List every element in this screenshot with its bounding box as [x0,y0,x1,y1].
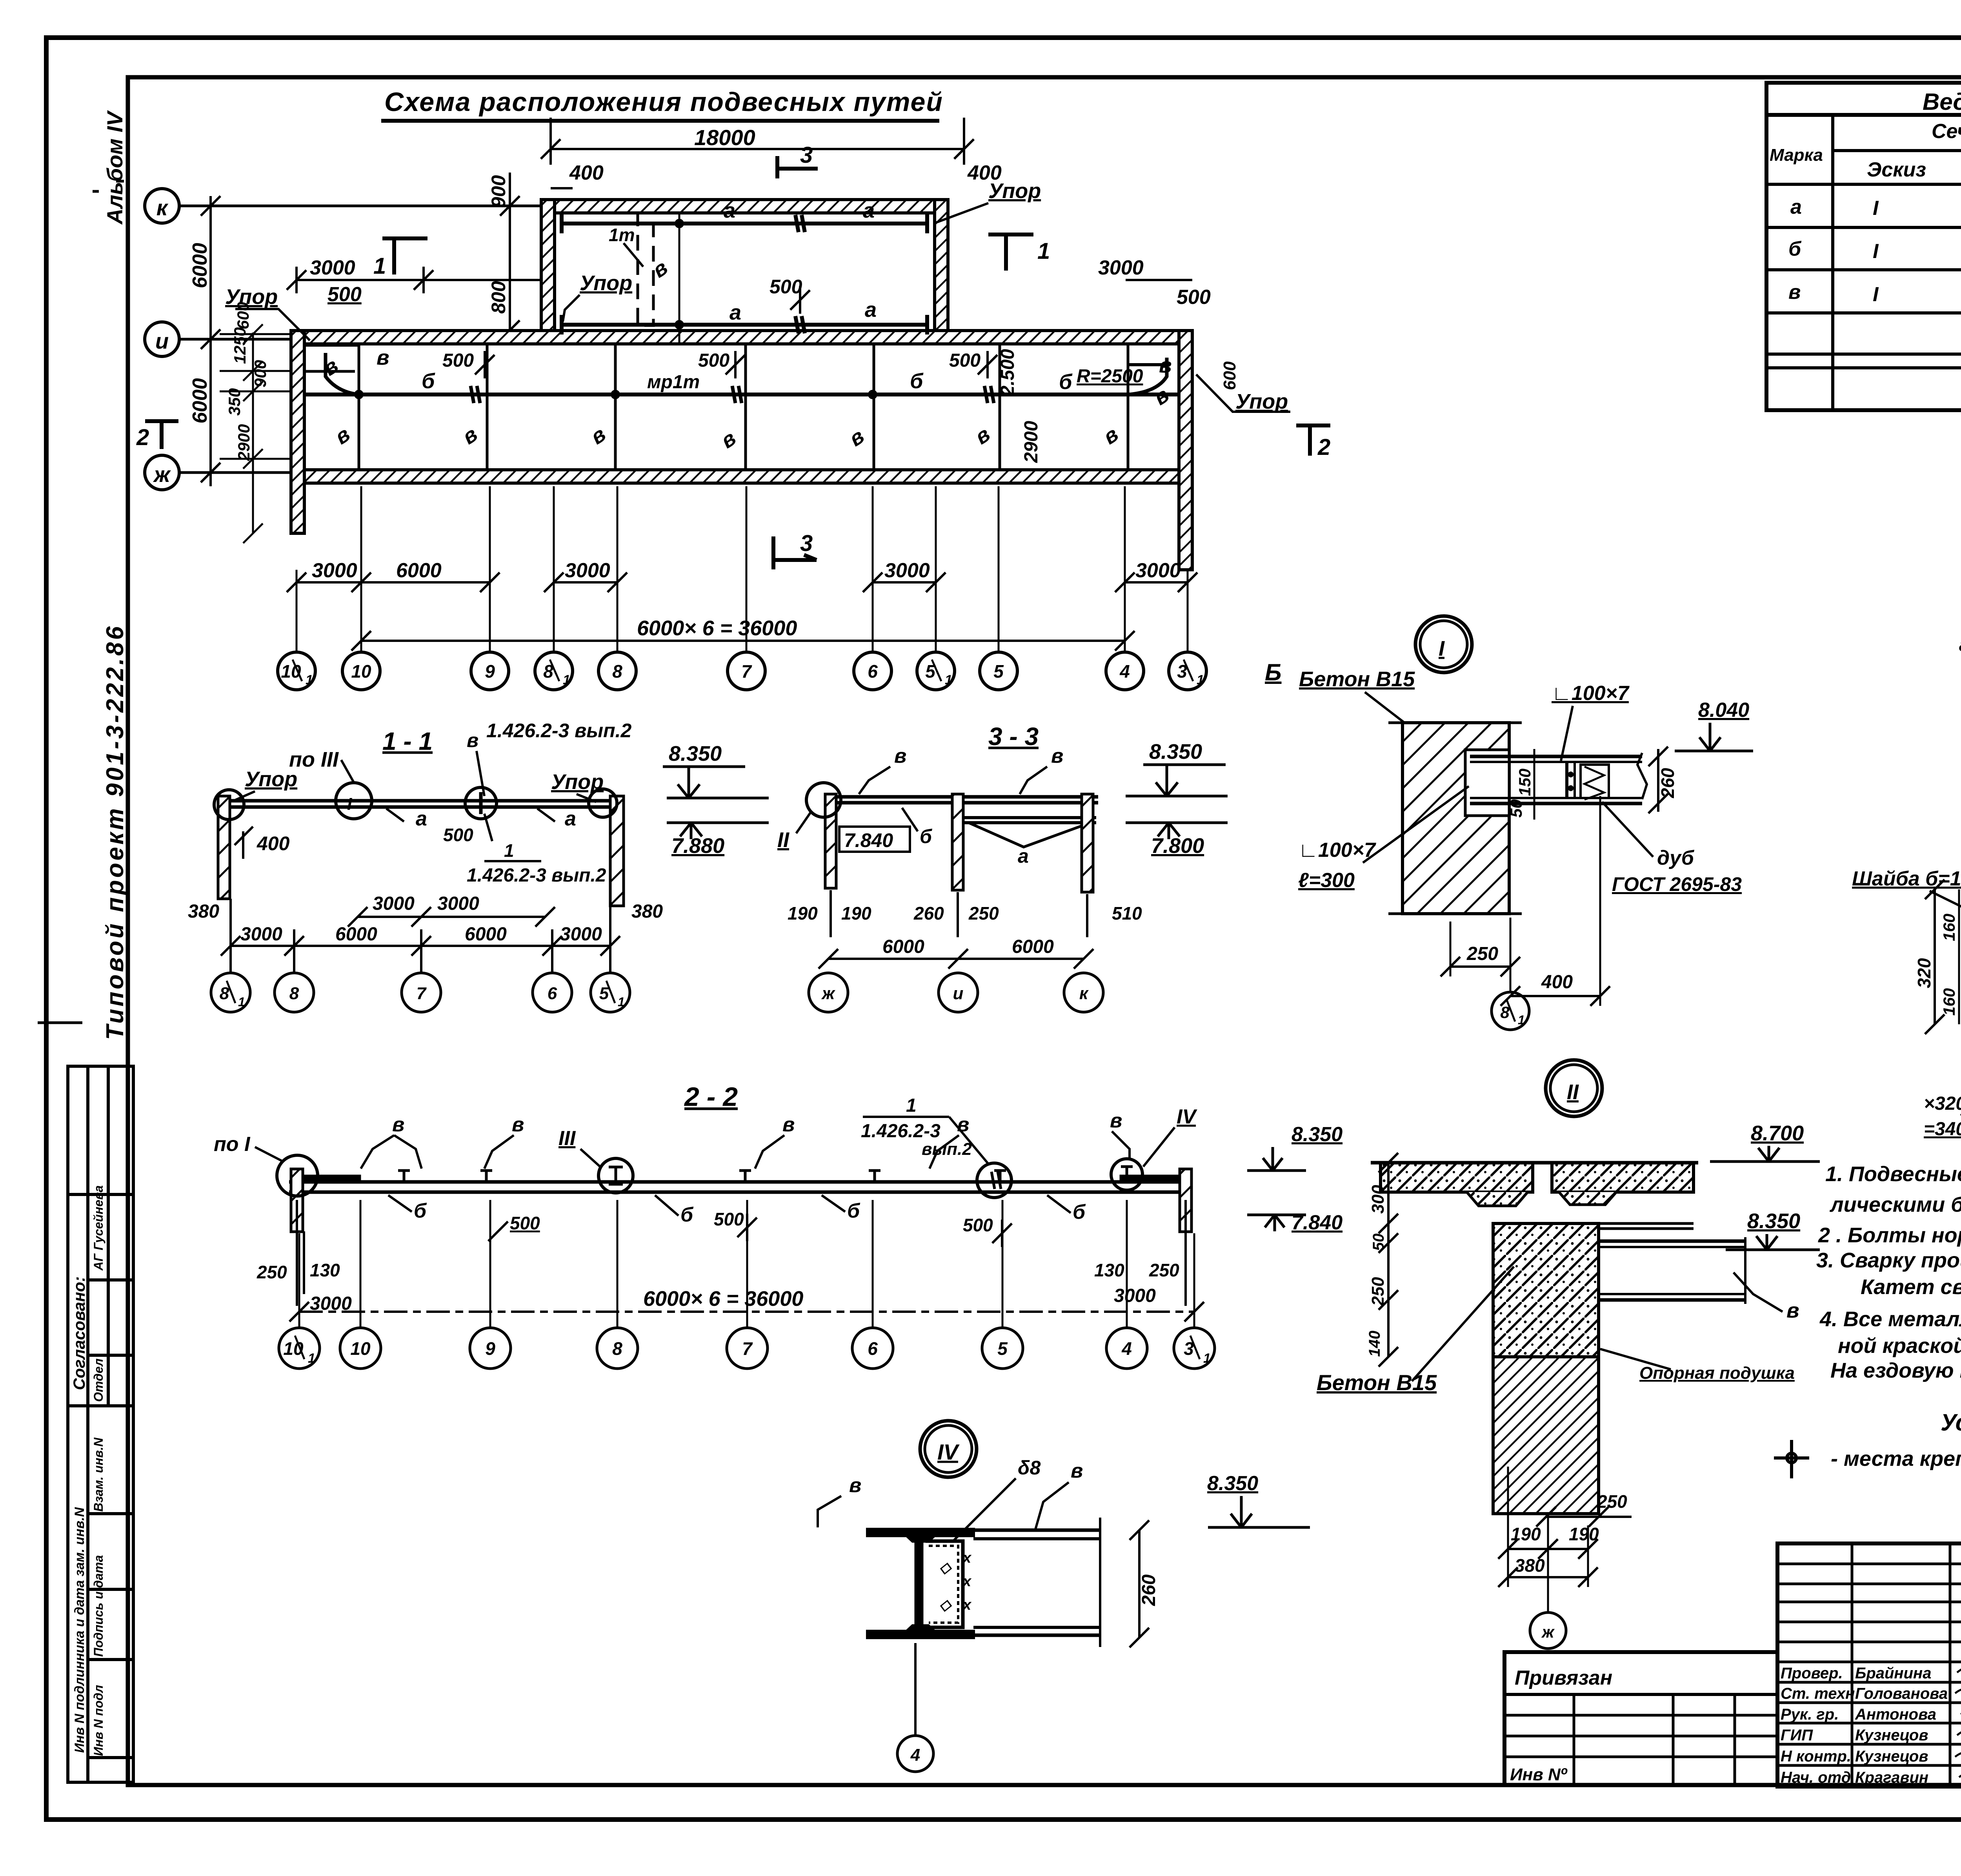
svg-text:50: 50 [1370,1234,1387,1251]
svg-text:а: а [729,301,741,324]
svg-text:1: 1 [906,1095,917,1116]
svg-text:8.350: 8.350 [1207,1472,1258,1495]
left dims [1387,1163,1390,1357]
svg-text:Катет сварного шва h=6 мм.: Катет сварного шва h=6 мм. [1861,1275,1961,1299]
elevation 7.800 right [1126,822,1228,824]
left margin stamp texts [70,1185,106,1756]
svg-text:ж: ж [1541,1623,1555,1641]
svg-text:Упор: Упор [988,179,1041,203]
I-beam top flange [868,1529,973,1541]
svg-text:1: 1 [504,840,514,861]
main dim line [299,1311,1194,1313]
svg-text:δ8: δ8 [1018,1457,1041,1479]
right slab [1552,1163,1694,1192]
svg-text:1.426.2-3 вып.2: 1.426.2-3 вып.2 [486,720,632,742]
left end wall [291,1169,303,1232]
svg-text:x: x [962,1597,972,1613]
svg-text:260: 260 [1657,768,1678,798]
callout circles [336,783,372,819]
svg-text:◇: ◇ [939,1597,952,1613]
svg-text:500: 500 [963,1215,993,1235]
penthouse monorail beams a [562,214,927,334]
svg-text:в: в [1788,281,1801,304]
axis stub lines down [297,486,1188,652]
svg-text:4. Все металлоконструкции о: 4. Все металлоконструкции окрасить за 2 … [1819,1307,1961,1331]
svg-text:3000: 3000 [560,924,602,945]
svg-text:На ездовую поверхность кра: На ездовую поверхность краска не наносит… [1830,1359,1961,1382]
svg-text:IV: IV [1177,1105,1197,1128]
svg-text:а: а [863,199,875,222]
svg-text:и: и [953,984,964,1003]
grid circle Zh [1547,1514,1549,1612]
svg-text:7: 7 [417,984,427,1003]
band top wall [291,331,1192,344]
svg-text:I: I [1873,283,1879,306]
elevation 7.880 [667,822,769,824]
svg-text:в: в [1071,1460,1083,1482]
svg-text:Сечение: Сечение [1932,120,1961,143]
svg-text:Рук. гр.: Рук. гр. [1781,1706,1839,1723]
svg-text:б: б [1073,1201,1086,1223]
detail IV circle [920,1421,977,1477]
svg-text:2 - 2: 2 - 2 [684,1082,738,1112]
svg-text:1: 1 [373,253,386,279]
top slab line [1371,1161,1698,1165]
column lower masonry [1493,1357,1599,1514]
column upper concrete [1493,1223,1599,1357]
svg-text:Бетон В15: Бетон В15 [1299,667,1415,691]
svg-text:1: 1 [1197,673,1204,687]
dim 3000 500 right [1126,279,1192,281]
svg-text:а: а [1018,845,1029,867]
svg-text:Брайнина: Брайнина [1855,1665,1931,1682]
svg-text:Провер.: Провер. [1781,1665,1843,1682]
svg-text:3000: 3000 [1135,559,1181,582]
rail beam [289,1180,1184,1184]
svg-text:900: 900 [488,175,509,208]
svg-text:б: б [847,1200,860,1222]
svg-text:1. Подвесные пути в осях к-: 1. Подвесные пути в осях к- ж крепятся к… [1825,1162,1961,1186]
elements list table [1766,83,1961,410]
svg-text:I: I [1873,197,1879,220]
section mark 3 bottom [773,536,817,569]
left end beams [304,344,359,347]
svg-text:Упор: Упор [580,271,632,295]
svg-text:260: 260 [1139,1574,1159,1606]
svg-text:8.700: 8.700 [1751,1122,1804,1145]
svg-text:3: 3 [800,531,813,556]
svg-text:2900: 2900 [1021,421,1042,463]
label 7.840 boxed [839,827,910,852]
band bottom wall [291,470,1192,483]
svg-text:6: 6 [868,661,878,682]
svg-text:130: 130 [1094,1260,1124,1280]
main title block [1777,1543,1961,1787]
svg-text:380: 380 [188,901,219,922]
svg-text:в: в [894,745,906,767]
svg-text:150: 150 [1515,769,1534,796]
penthouse left wall [541,200,555,344]
svg-text:II: II [1567,1080,1579,1104]
section mark 1 top right [988,234,1033,271]
svg-text:7: 7 [741,661,752,682]
svg-text:250: 250 [1597,1491,1627,1512]
svg-text:190: 190 [788,903,818,923]
svg-text:2: 2 [136,425,149,450]
svg-text:III: III [558,1127,576,1150]
beam pocket [1465,750,1509,816]
svg-text:по I: по I [214,1133,251,1156]
svg-text:6000: 6000 [335,924,377,945]
svg-text:8.350: 8.350 [1149,740,1202,763]
svg-text:5: 5 [993,661,1004,682]
svg-text:1.426.2-3: 1.426.2-3 [861,1121,940,1142]
I-beam web [915,1536,923,1631]
svg-text:6000: 6000 [465,924,507,945]
svg-text:Альбом IV: Альбом IV [102,110,127,225]
svg-text:6000: 6000 [189,243,211,288]
axis И line [179,338,292,341]
dim line bottom [221,899,620,973]
svg-text:6: 6 [548,984,557,1003]
svg-text:◇: ◇ [939,1560,952,1576]
svg-text:7.840: 7.840 [1292,1211,1343,1234]
svg-text:7.840: 7.840 [844,829,893,851]
svg-text:ГОСТ 2695-83: ГОСТ 2695-83 [1612,873,1742,895]
v labels with leaders [392,1109,1122,1136]
grid circle 4 [897,1736,933,1772]
svg-text:в: в [1110,1109,1122,1132]
svg-text:500: 500 [714,1209,744,1229]
left vertical dim line [201,196,220,486]
svg-text:в: в [782,1113,795,1136]
monorail joints [471,386,994,403]
svg-text:а: а [865,298,877,322]
concrete wall [1403,723,1509,914]
band left wall [291,331,304,533]
svg-text:500: 500 [327,283,362,306]
svg-text:1: 1 [945,673,952,687]
svg-text:1: 1 [1037,238,1050,264]
svg-text:мр1т: мр1т [647,372,700,393]
under-slab beam lines right [1552,1222,1694,1225]
svg-text:160: 160 [1940,914,1958,941]
svg-text:3000: 3000 [437,893,479,914]
svg-text:ℓ=300: ℓ=300 [1298,869,1355,892]
svg-text:5: 5 [599,984,609,1003]
svg-text:8: 8 [612,1338,622,1359]
svg-text:1: 1 [306,673,313,687]
monorail beam side view [1470,755,1642,758]
svg-text:3000: 3000 [312,559,357,582]
svg-text:Нач. отд: Нач. отд [1781,1769,1851,1786]
axis circle Ж [145,455,179,490]
svg-text:3 - 3: 3 - 3 [988,722,1039,751]
left monorail end curve [326,353,359,394]
right end wall [1180,1169,1192,1232]
svg-text:3000: 3000 [373,893,415,914]
left upor plate [292,1175,361,1182]
bottom dim chain 1 [287,573,1197,592]
band interior columns v [359,344,1128,470]
axis stubs [299,1200,1194,1327]
svg-text:Антонова: Антонова [1855,1706,1936,1723]
svg-text:500: 500 [442,350,474,371]
svg-text:1т: 1т [609,225,635,245]
svg-text:3. Сварку производить элект: 3. Сварку производить электродами Э 42 Г… [1816,1249,1961,1272]
svg-text:18000: 18000 [694,125,755,150]
fold mark tick [38,1022,82,1024]
svg-text:АГ Гусейнева: АГ Гусейнева [91,1185,106,1271]
privyazan table [1504,1652,1777,1785]
svg-text:дуб: дуб [1657,847,1695,869]
monorail beam right [1599,1240,1745,1243]
svg-text:Шайба б=10: Шайба б=10 [1852,867,1961,890]
svg-text:Марка: Марка [1770,145,1823,165]
svg-text:6000: 6000 [1012,936,1054,957]
svg-text:Н контр.: Н контр. [1781,1748,1851,1765]
svg-text:5: 5 [997,1338,1008,1359]
svg-text:400: 400 [256,833,290,854]
svg-text:190: 190 [841,903,871,923]
dim 260 [1138,1530,1141,1638]
svg-text:6000× 6 = 36000: 6000× 6 = 36000 [637,616,797,640]
svg-text:3000: 3000 [240,924,282,945]
left slab [1381,1163,1533,1192]
svg-text:7.880: 7.880 [671,834,724,858]
svg-text:2: 2 [1317,434,1330,460]
svg-text:600: 600 [1220,361,1239,390]
legend symbol [1774,1440,1809,1478]
grid circles [211,973,630,1012]
svg-text:а: а [416,807,427,830]
svg-text:3000: 3000 [884,559,930,582]
left dims 320 160 160 15 [1934,889,1936,1024]
section mark 2 left [145,421,178,449]
svg-text:Кузнецов: Кузнецов [1855,1727,1928,1744]
svg-text:500: 500 [698,350,729,371]
svg-text:в: в [377,346,389,369]
svg-text:в: в [392,1113,404,1136]
svg-text:400: 400 [569,162,604,184]
svg-text:6000: 6000 [882,936,924,957]
v labels [318,346,1173,453]
svg-text:б: б [1788,238,1802,260]
svg-text:8.350: 8.350 [669,742,722,765]
I-beam bottom flange [868,1626,973,1638]
svg-text:500: 500 [443,825,473,845]
svg-text:3: 3 [800,142,813,168]
dim 3000 500 left [297,279,551,281]
lower beam a with hanger [963,816,1096,819]
svg-text:Отдел: Отдел [91,1358,106,1402]
svg-text:1250: 1250 [231,327,249,364]
svg-text:Б: Б [1265,659,1281,685]
svg-text:в: в [512,1113,524,1136]
svg-text:и: и [155,329,169,353]
svg-text:б: б [920,825,933,847]
b labels below beam [414,1200,1086,1226]
svg-text:1: 1 [1203,1351,1211,1366]
svg-text:1: 1 [238,995,245,1009]
svg-text:Инв Nº: Инв Nº [1510,1765,1568,1784]
svg-text:3000: 3000 [565,559,610,582]
bottom dim chain 2 [361,640,1125,642]
svg-text:а: а [1790,196,1802,218]
svg-text:1.426.2-3 вып.2: 1.426.2-3 вып.2 [467,865,606,886]
penthouse top wall [541,200,948,213]
I-symbols on beam [398,1171,1006,1182]
svg-text:1 - 1: 1 - 1 [382,727,433,755]
svg-text:в: в [1051,745,1063,767]
right column [610,796,624,906]
elevation 7.840 right [1247,1214,1306,1216]
svg-text:Привязан: Привязан [1515,1667,1612,1689]
svg-text:10: 10 [350,1338,371,1359]
svg-text:Согласовано:: Согласовано: [70,1276,88,1390]
svg-text:x: x [962,1573,972,1590]
svg-text:500: 500 [1177,286,1211,309]
svg-text:1: 1 [1518,1013,1525,1027]
detail I circle [1415,616,1472,673]
svg-text:II: II [777,828,789,852]
svg-text:I: I [347,794,352,814]
svg-text:Упор: Упор [225,285,278,309]
svg-text:3000: 3000 [1098,256,1144,279]
svg-text:Ст. техн: Ст. техн [1781,1685,1855,1702]
svg-text:8: 8 [612,661,622,682]
svg-text:Кузнецов: Кузнецов [1855,1748,1928,1765]
callout circles on beam [277,1155,318,1196]
svg-text:250: 250 [968,903,999,923]
svg-text:1: 1 [308,1351,315,1366]
grid circles bottom [278,652,1206,690]
svg-text:3000: 3000 [310,256,355,279]
left dim chain line [220,324,302,543]
svg-text:Эскиз: Эскиз [1867,158,1926,181]
svg-text:8.350: 8.350 [1747,1209,1800,1233]
svg-text:50: 50 [1507,799,1525,818]
rail beams [828,795,1098,799]
svg-text:1: 1 [563,673,570,687]
bolt dots [1568,772,1574,777]
right monorail end curve R2500 [1128,358,1167,394]
table texts [1770,89,1961,306]
svg-text:б: б [414,1200,427,1222]
svg-text:Ведомость: Ведомость [1923,89,1961,115]
left margin stamp table [68,1066,133,1782]
svg-text:510: 510 [1112,903,1142,923]
angle and oak block [1565,762,1568,799]
svg-text:=340: =340 [1924,1119,1961,1140]
columns [825,794,836,888]
svg-text:6: 6 [868,1338,878,1359]
svg-text:160: 160 [1940,988,1958,1016]
axis Ж line [179,471,292,474]
svg-text:6000× 6 = 36000: 6000× 6 = 36000 [643,1287,803,1311]
svg-text:7: 7 [742,1338,753,1359]
svg-text:2 . Болты нормальной точнос: 2 . Болты нормальной точности ГОСТ 7798-… [1818,1223,1961,1247]
penthouse right wall [935,200,948,344]
svg-text:250: 250 [256,1262,287,1282]
svg-text:500: 500 [769,276,802,298]
svg-text:I: I [1873,240,1879,263]
svg-text:а: а [724,199,735,222]
svg-text:3000: 3000 [1114,1285,1156,1306]
svg-text:250: 250 [1149,1260,1179,1280]
grid circles [809,973,1103,1012]
grid circles [279,1328,1215,1369]
svg-text:320: 320 [1914,958,1934,988]
svg-text:R=2500: R=2500 [1077,366,1143,387]
svg-text:9: 9 [485,1338,495,1359]
svg-text:500: 500 [949,350,980,371]
grid circle 8/1 [1510,918,1512,991]
section mark 1 top left [382,238,427,274]
svg-text:250: 250 [1466,943,1498,964]
dim line [819,949,1093,969]
dim 900 800 left of penthouse [509,173,511,343]
svg-text:Типовой проект 901-3-222.86: Типовой проект 901-3-222.86 [102,624,129,1040]
svg-text:10: 10 [351,661,371,682]
svg-text:ГИП: ГИП [1781,1727,1813,1744]
axis circle И [145,322,179,356]
svg-text:300: 300 [1368,1185,1388,1214]
svg-text:380: 380 [1515,1555,1545,1576]
svg-text:4: 4 [1119,661,1130,682]
rail beam [222,799,619,803]
svg-text:Упор: Упор [245,767,297,791]
svg-text:IV: IV [937,1440,960,1464]
svg-text:Голованова: Голованова [1855,1685,1948,1702]
svg-text:2900: 2900 [235,424,253,461]
staff names [1781,1665,1948,1786]
welded channel [926,1541,963,1627]
svg-text:к: к [156,195,169,220]
svg-text:лическими болтами М 12 чере: лическими болтами М 12 через пластины б=… [1829,1193,1961,1216]
svg-text:380: 380 [631,901,663,922]
svg-text:6000: 6000 [396,559,442,582]
svg-text:400: 400 [1541,972,1573,993]
svg-text:∟100×7: ∟100×7 [1298,839,1376,862]
leader to circle 4 [914,1643,917,1736]
band monorail b line [304,393,1179,396]
detail II circle [1546,1060,1602,1116]
svg-text:1: 1 [618,995,625,1009]
svg-text:7.800: 7.800 [1151,834,1204,858]
svg-text:Взам. инв.N: Взам. инв.N [91,1437,106,1512]
svg-text:Условные обозначения:: Условные обозначения: [1941,1409,1961,1436]
svg-text:x: x [962,1550,972,1566]
svg-text:Крагавин: Крагавин [1855,1769,1928,1786]
svg-text:4: 4 [1121,1338,1132,1359]
svg-text:б: б [1059,370,1073,394]
svg-text:130: 130 [310,1260,340,1280]
svg-text:8: 8 [220,984,229,1003]
svg-text:140: 140 [1366,1331,1383,1357]
svg-text:I: I [1439,637,1445,660]
svg-text:∟100×7: ∟100×7 [1552,682,1630,705]
svg-text:ной краской ( ГОСТ 695-77): ной краской ( ГОСТ 695-77) по огрунтовке… [1838,1334,1961,1358]
svg-text:Схема расположения подвесных: Схема расположения подвесных путей [384,87,943,117]
svg-text:а: а [1959,633,1961,655]
svg-text:9: 9 [485,661,495,682]
section mark 3 top [777,156,818,178]
svg-text:б: б [910,369,924,393]
hoist trolley dashed [638,213,653,325]
svg-text:в: в [1786,1299,1799,1322]
svg-text:в: в [467,729,478,751]
